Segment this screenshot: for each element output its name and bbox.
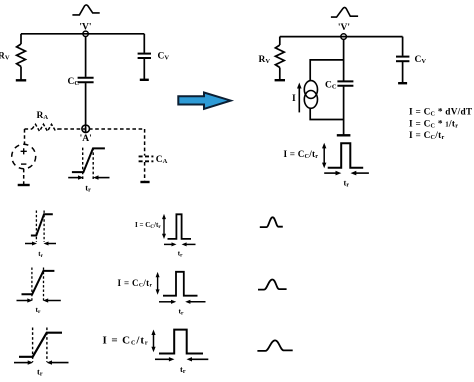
input bump waveform above node V (right circuit) bbox=[331, 7, 358, 17]
dashed net wire at node A (right segment) bbox=[58, 128, 145, 130]
svg-text:I: I bbox=[292, 94, 296, 104]
ramp waveform at node A (left circuit) bbox=[72, 148, 105, 180]
svg-text:I = CC/tr: I = CC/tr bbox=[284, 149, 319, 160]
node V circle (right) bbox=[341, 34, 347, 40]
label Cc (left) bbox=[68, 77, 80, 87]
dashed source (left): vertical lead from RA line bbox=[24, 129, 26, 144]
dashed source circle with +/- bbox=[12, 144, 36, 169]
row1 output bump bbox=[260, 217, 283, 227]
row2 label tr bbox=[36, 305, 42, 315]
node V circle (left) bbox=[83, 31, 88, 36]
dashed source: lower lead bbox=[23, 169, 25, 185]
row3 label I = Cc/tr (bold) bbox=[103, 334, 149, 346]
equations block bbox=[409, 108, 473, 142]
row2 pulse label tr bbox=[179, 307, 185, 317]
row1 tr arrows bbox=[25, 242, 56, 246]
dashed source: ground bar bbox=[18, 184, 30, 186]
node V label (right) bbox=[338, 23, 350, 33]
capacitor CA (dashed, right branch) bbox=[139, 129, 154, 182]
row2 ramp waveform bbox=[22, 268, 55, 301]
svg-text:'A': 'A' bbox=[80, 134, 92, 144]
row1 label tr bbox=[38, 250, 43, 259]
row2 tr arrows bbox=[17, 298, 61, 302]
label Cv (left) bbox=[158, 52, 170, 62]
label Cv (right) bbox=[415, 55, 427, 65]
row3 label tr (bold) bbox=[37, 367, 43, 378]
current source branch wires (right circuit) bbox=[310, 60, 343, 120]
dashed net wire at node A (left segment) bbox=[25, 128, 33, 130]
row3 pulse waveform bbox=[159, 330, 203, 354]
big blue arrow bbox=[178, 93, 230, 109]
row1 amplitude double arrow bbox=[162, 214, 166, 239]
row2 output bump bbox=[258, 280, 287, 290]
svg-text:I = CC * dV/dT: I = CC * dV/dT bbox=[409, 108, 473, 118]
pulse amplitude double arrow (right circuit) bbox=[322, 143, 326, 168]
wire: top rail right circuit bbox=[280, 36, 403, 38]
row1 ramp waveform bbox=[31, 211, 53, 243]
label Rv (left) bbox=[0, 52, 10, 62]
row3 output bump bbox=[257, 340, 292, 351]
capacitor Cc (right circuit, center branch) bbox=[337, 40, 354, 136]
node V label (left) bbox=[79, 23, 91, 33]
current source symbol (two interlocked circles) bbox=[304, 81, 317, 109]
label I bbox=[292, 94, 296, 104]
input bump waveform above node V (left circuit) bbox=[72, 5, 99, 15]
current direction arrow I bbox=[297, 83, 302, 113]
wire: top rail left circuit bbox=[21, 33, 144, 35]
svg-text:'V': 'V' bbox=[338, 23, 350, 33]
row1 pulse waveform bbox=[168, 214, 192, 239]
label Cc (right) bbox=[325, 81, 337, 91]
row2 pulse waveform bbox=[163, 272, 198, 296]
label CA bbox=[156, 155, 168, 165]
row3 amplitude double arrow bbox=[151, 330, 155, 353]
row3 ramp waveform bbox=[19, 328, 62, 363]
row2 label I = Cc/tr bbox=[118, 278, 153, 289]
ramp tr arrows (left circuit) bbox=[68, 175, 109, 179]
row2 amplitude double arrow bbox=[156, 272, 160, 295]
node A circle bbox=[82, 125, 90, 133]
resistor Rv (right circuit) bbox=[275, 37, 285, 81]
row3 tr arrows bbox=[14, 360, 69, 364]
label Rv (right) bbox=[259, 55, 271, 65]
row1 label I = Cc/tr bbox=[135, 221, 161, 230]
label tr (left ramp) bbox=[85, 183, 91, 194]
node A label bbox=[80, 134, 92, 144]
resistor Rv (left circuit) bbox=[16, 34, 26, 81]
pulse waveform (right circuit output) bbox=[328, 143, 364, 168]
row3 pulse label tr (bold) bbox=[180, 364, 186, 375]
capacitor Cv (right circuit) bbox=[396, 37, 409, 84]
svg-text:I = CC/tr: I = CC/tr bbox=[135, 221, 161, 230]
svg-text:I = CC/tr: I = CC/tr bbox=[409, 131, 444, 141]
label tr (right pulse) bbox=[344, 178, 350, 189]
row1 pulse tr arrows bbox=[164, 242, 196, 246]
capacitor Cv (left circuit) bbox=[138, 34, 151, 80]
row2 pulse tr arrows bbox=[159, 300, 206, 304]
pulse tr arrows (right circuit) bbox=[324, 171, 369, 176]
resistor RA (dashed zigzag) bbox=[32, 124, 58, 131]
label RA bbox=[37, 111, 49, 121]
svg-text:I = CC/tr: I = CC/tr bbox=[118, 278, 153, 289]
capacitor Cc (left circuit) bbox=[78, 37, 94, 133]
svg-text:I = CC/tr: I = CC/tr bbox=[103, 334, 149, 346]
row3 pulse tr arrows bbox=[155, 357, 208, 361]
label I = Cc/tr (right circuit) bbox=[284, 149, 319, 160]
row1 pulse label tr bbox=[178, 250, 183, 259]
